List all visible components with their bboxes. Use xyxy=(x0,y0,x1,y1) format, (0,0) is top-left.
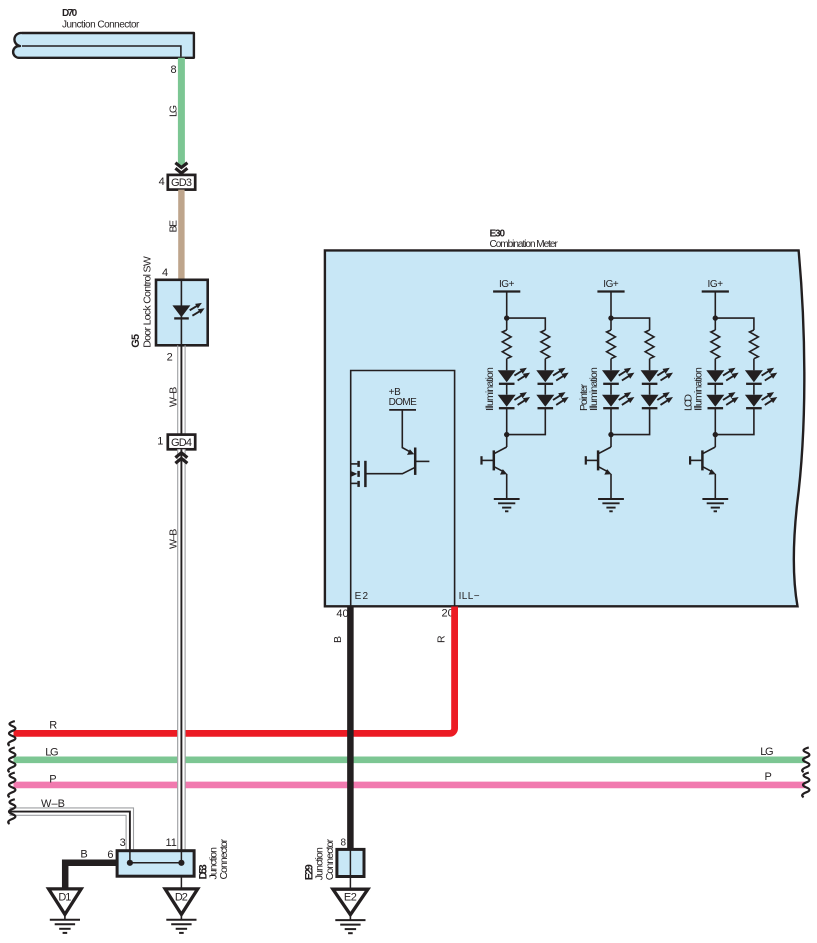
ground D2 xyxy=(165,889,198,933)
svg-text:R: R xyxy=(436,635,448,643)
wire resistor to LEDs left xyxy=(610,359,612,371)
svg-text:W–B: W–B xyxy=(167,387,179,407)
LED 1c xyxy=(536,368,568,384)
svg-text:E2: E2 xyxy=(344,892,357,904)
svg-text:D2: D2 xyxy=(175,891,188,903)
wire W-B crossing band over bus wires xyxy=(177,720,185,800)
switch G5 box xyxy=(156,280,208,346)
junction connector D53 box xyxy=(117,851,194,877)
continuation squiggle P left xyxy=(8,773,15,798)
svg-text:Illumination: Illumination xyxy=(588,367,600,411)
wire to right branch xyxy=(611,318,650,330)
svg-text:Combination Meter: Combination Meter xyxy=(490,239,559,250)
wire LG green horizontal xyxy=(14,756,806,763)
wire IG+ down to split node xyxy=(610,292,612,331)
svg-text:R: R xyxy=(49,720,57,732)
LED 1a xyxy=(498,368,530,384)
LED 3b xyxy=(706,392,738,408)
LED 1d xyxy=(536,392,568,408)
wire resistor to LEDs right xyxy=(544,359,546,371)
svg-text:LG: LG xyxy=(45,746,58,758)
svg-text:BE: BE xyxy=(167,220,179,233)
svg-text:P: P xyxy=(765,771,772,783)
svg-text:Connector: Connector xyxy=(324,838,336,880)
IG+ supply bar xyxy=(493,290,520,292)
wire between left LEDs xyxy=(610,384,612,395)
svg-text:3: 3 xyxy=(120,837,126,849)
svg-text:1: 1 xyxy=(157,436,163,448)
resistor right branch xyxy=(541,330,550,359)
G5 label xyxy=(130,256,153,348)
wire R red from pin 20 down and left xyxy=(14,607,455,734)
svg-text:B: B xyxy=(332,636,344,643)
connector GD3 xyxy=(168,175,195,190)
transistor Q2 (NPN) xyxy=(586,447,612,499)
svg-text:LG: LG xyxy=(760,746,773,758)
LED driver circuit: LCD Illumination xyxy=(683,279,778,511)
resistor right branch xyxy=(645,330,654,359)
svg-text:IG+: IG+ xyxy=(499,279,515,290)
wire resistor to LEDs left xyxy=(714,359,716,371)
LED 2a xyxy=(602,368,634,384)
transistor Q1 (NPN) xyxy=(482,447,508,499)
svg-text:Junction Connector: Junction Connector xyxy=(62,20,140,31)
IG+ supply bar xyxy=(702,290,729,292)
svg-text:11: 11 xyxy=(165,837,176,849)
ground E2 xyxy=(333,889,368,933)
wire left branch to lower node xyxy=(714,408,716,447)
svg-text:4: 4 xyxy=(162,267,168,279)
junction dot pin 11 xyxy=(178,860,184,866)
wire to ground E2 xyxy=(349,877,351,890)
wire to right branch xyxy=(715,318,754,330)
svg-text:2: 2 xyxy=(167,352,173,364)
continuation squiggle LG left xyxy=(8,747,15,772)
LED 1b xyxy=(498,392,530,408)
LED driver circuit: Illumination xyxy=(482,279,569,511)
svg-text:8: 8 xyxy=(340,838,346,849)
ground symbol xyxy=(598,499,624,511)
svg-text:B: B xyxy=(80,849,87,861)
LED 2d xyxy=(641,392,673,408)
svg-text:E2: E2 xyxy=(355,591,369,602)
svg-text:GD3: GD3 xyxy=(171,177,192,189)
chevron arrows into GD4 xyxy=(175,453,187,463)
DOME supply bar and wire to transistor xyxy=(389,410,416,455)
svg-text:G5: G5 xyxy=(130,334,142,348)
lower junction dot xyxy=(608,432,613,437)
LED 3a xyxy=(706,368,738,384)
ground D1 xyxy=(49,889,82,933)
svg-text:Door Lock Control SW: Door Lock Control SW xyxy=(141,256,153,348)
svg-text:ILL−: ILL− xyxy=(459,591,480,602)
wire resistor to LEDs right xyxy=(649,359,651,371)
junction dot xyxy=(608,315,613,320)
chevron arrows into GD3 xyxy=(175,163,187,173)
svg-text:D70: D70 xyxy=(62,8,78,19)
junction dot pin 3 xyxy=(127,860,133,866)
lower junction dot xyxy=(504,432,509,437)
wire W-B horizontal to D53 pin 3 xyxy=(10,808,134,850)
continuation squiggle P right xyxy=(802,773,809,798)
wire B black from pin 40 to E29 xyxy=(347,607,354,850)
wire right branch to lower node xyxy=(715,408,754,434)
wire between left LEDs xyxy=(506,384,508,395)
lower junction dot xyxy=(713,432,718,437)
svg-text:6: 6 xyxy=(107,849,113,861)
svg-text:8: 8 xyxy=(170,64,176,76)
wire left branch to lower node xyxy=(610,408,612,447)
connector GD4 xyxy=(168,435,195,450)
svg-text:4: 4 xyxy=(159,176,165,188)
svg-text:IG+: IG+ xyxy=(708,279,724,290)
wire IG+ down to split node xyxy=(506,292,508,331)
resistor left branch xyxy=(502,330,511,359)
svg-text:Connector: Connector xyxy=(218,838,230,879)
LED 2b xyxy=(602,392,634,408)
continuation squiggle W-B left xyxy=(8,799,15,824)
continuation squiggle LG right xyxy=(802,747,809,772)
wire left branch to lower node xyxy=(506,408,508,447)
MOSFET in sub-box xyxy=(351,461,366,487)
wire resistor to LEDs right xyxy=(753,359,755,371)
combination meter E30 box xyxy=(325,250,804,606)
LED symbol in G5 xyxy=(172,303,204,319)
svg-text:D1: D1 xyxy=(58,891,71,903)
svg-text:P: P xyxy=(49,774,56,786)
transistor (PNP) in sub-box xyxy=(365,448,429,475)
ground symbol xyxy=(702,499,728,511)
svg-text:40: 40 xyxy=(336,608,348,620)
wire right branch to lower node xyxy=(611,408,650,434)
label +B DOME xyxy=(389,387,418,408)
wire resistor to LEDs left xyxy=(506,359,508,371)
E29 label (rotated) xyxy=(303,838,336,880)
D53 label (rotated) xyxy=(197,838,230,879)
LED 3c xyxy=(745,368,777,384)
wire P pink horizontal xyxy=(14,782,806,789)
transistor Q3 (NPN) xyxy=(690,447,716,499)
svg-text:DOME: DOME xyxy=(389,397,418,408)
continuation squiggle R left xyxy=(8,721,15,746)
junction dot xyxy=(713,315,718,320)
ground symbol xyxy=(494,499,520,511)
combination meter E30 label xyxy=(490,228,559,249)
wire to ground D2 xyxy=(180,876,182,889)
wire right branch to lower node xyxy=(507,408,546,434)
wire LG vertical from D70 to GD3 xyxy=(178,58,185,166)
wire IG+ down to split node xyxy=(714,292,716,331)
svg-text:E30: E30 xyxy=(490,228,506,239)
resistor left branch xyxy=(711,330,720,359)
svg-text:W–B: W–B xyxy=(167,529,179,549)
svg-text:Illumination: Illumination xyxy=(484,367,496,411)
junction dot xyxy=(504,315,509,320)
LED driver circuit: Pointer Illumination xyxy=(578,279,673,511)
wire between left LEDs xyxy=(714,384,716,395)
wire W-B (white/black stripe) from G5 to GD4 xyxy=(178,345,185,434)
junction connector E29 box xyxy=(337,849,364,876)
wire B black from D53 to D1 ground xyxy=(65,863,117,889)
svg-text:Illumination: Illumination xyxy=(693,367,705,411)
wire BE vertical from GD3 to G5 xyxy=(178,190,184,280)
junction connector D70 bar xyxy=(13,33,194,58)
LED 3d xyxy=(745,392,777,408)
LED 2c xyxy=(641,368,673,384)
svg-text:W–B: W–B xyxy=(41,798,65,810)
svg-text:GD4: GD4 xyxy=(171,437,192,449)
junction connector D70 label xyxy=(62,8,140,30)
wire between right LEDs xyxy=(649,384,651,395)
resistor right branch xyxy=(750,330,759,359)
resistor left branch xyxy=(607,330,616,359)
IG+ supply bar xyxy=(597,290,624,292)
wire to right branch xyxy=(507,318,546,330)
inner sub-box (dimmer module) xyxy=(351,371,455,607)
svg-text:IG+: IG+ xyxy=(603,279,619,290)
wire between right LEDs xyxy=(544,384,546,395)
wire between right LEDs xyxy=(753,384,755,395)
svg-text:LG: LG xyxy=(167,105,179,117)
wire W-B from GD4 to D53 pin 11 xyxy=(177,449,185,850)
